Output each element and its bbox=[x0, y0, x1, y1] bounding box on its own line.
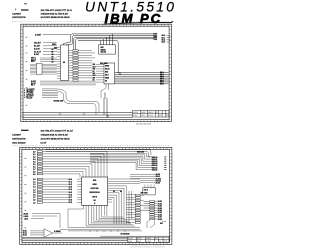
svg-text:00: 00 bbox=[93, 80, 95, 82]
svg-text:00: 00 bbox=[105, 81, 107, 83]
svg-text:000-00: 000-00 bbox=[101, 52, 107, 54]
svg-text:100 2704-4771 10012 0777 10-11: 100 2704-4771 10012 0777 10-11 bbox=[41, 10, 73, 12]
svg-text:100 2704-4771 10012 0777 10-11: 100 2704-4771 10012 0777 10-117 bbox=[41, 130, 74, 132]
svg-text:00: 00 bbox=[120, 191, 122, 193]
svg-text:8-007: 8-007 bbox=[34, 54, 40, 56]
svg-text:000-06: 000-06 bbox=[152, 169, 157, 171]
svg-text:00000: 00000 bbox=[141, 112, 146, 114]
svg-text:1/100007: 1/100007 bbox=[12, 134, 22, 136]
svg-text:91/07/13/1700: 91/07/13/1700 bbox=[12, 17, 26, 19]
svg-text:00-0: 00-0 bbox=[105, 75, 109, 77]
svg-text:00-03: 00-03 bbox=[158, 208, 162, 210]
svg-text:0000 000 00000 0 000000 00: 0000 000 00000 0 000000 00 bbox=[131, 245, 165, 249]
svg-text:00-06: 00-06 bbox=[158, 214, 162, 216]
svg-text:000: 000 bbox=[93, 73, 96, 75]
svg-text:0: 0 bbox=[94, 203, 95, 205]
svg-text:17811300 8/13 01-7300 8-017: 17811300 8/13 01-7300 8-017 bbox=[41, 134, 70, 136]
svg-text:00: 00 bbox=[159, 241, 161, 243]
svg-text:0-9: 0-9 bbox=[33, 174, 36, 176]
svg-text:1/100007: 1/100007 bbox=[12, 14, 22, 16]
svg-text:0000 000: 0000 000 bbox=[91, 188, 99, 190]
svg-text:91/07/13/1700: 91/07/13/1700 bbox=[12, 138, 26, 140]
svg-text:000: 000 bbox=[93, 64, 96, 66]
svg-text:00 000: 00 000 bbox=[146, 241, 151, 243]
svg-text:000-000: 000-000 bbox=[137, 151, 144, 153]
svg-text:00: 00 bbox=[93, 71, 95, 73]
svg-text:00: 00 bbox=[52, 52, 54, 54]
svg-text:000 0: 000 0 bbox=[92, 196, 97, 198]
svg-text:10.017070 30300-00710 00100: 10.017070 30300-00710 00100 bbox=[41, 17, 71, 19]
svg-text:1-9: 1-9 bbox=[33, 202, 36, 204]
svg-text:000: 000 bbox=[160, 223, 163, 225]
svg-text:00 000: 00 000 bbox=[148, 115, 153, 117]
svg-text:0000000-00: 0000000-00 bbox=[90, 192, 100, 194]
svg-text:0-000: 0-000 bbox=[133, 115, 137, 117]
svg-text:0-0007: 0-0007 bbox=[35, 34, 42, 36]
svg-text:00-00: 00-00 bbox=[158, 201, 162, 203]
svg-text:00-02: 00-02 bbox=[158, 206, 162, 208]
svg-text:00: 00 bbox=[156, 112, 158, 114]
svg-text:00-7: 00-7 bbox=[31, 85, 35, 87]
svg-text:0000: 0000 bbox=[144, 193, 148, 195]
svg-text:000 00: 000 00 bbox=[133, 112, 138, 114]
svg-text:0000: 0000 bbox=[105, 78, 109, 80]
svg-text:00-6: 00-6 bbox=[160, 84, 164, 86]
svg-text:00-01: 00-01 bbox=[158, 203, 162, 205]
svg-text:00-0: 00-0 bbox=[93, 66, 96, 68]
svg-text:000 00: 000 00 bbox=[128, 238, 133, 240]
svg-text:10.017070 30300-00710 00100: 10.017070 30300-00710 00100 bbox=[41, 138, 71, 140]
svg-text:8-0 07: 8-0 07 bbox=[41, 142, 48, 144]
svg-text:00: 00 bbox=[52, 49, 54, 51]
svg-text:00-0: 00-0 bbox=[25, 218, 29, 220]
svg-text:0-03: 0-03 bbox=[154, 39, 158, 41]
svg-text:00 000000: 00 000000 bbox=[121, 233, 130, 235]
svg-text:00: 00 bbox=[155, 238, 157, 240]
svg-text:000-0: 000-0 bbox=[141, 115, 145, 117]
svg-text:0-000: 0-000 bbox=[128, 241, 132, 243]
svg-text:11: 11 bbox=[166, 113, 169, 117]
svg-text:0000: 0000 bbox=[92, 184, 96, 186]
svg-text:00000: 00000 bbox=[137, 238, 141, 240]
svg-text:00: 00 bbox=[63, 62, 65, 64]
svg-text:0.8-00: 0.8-00 bbox=[34, 49, 41, 51]
svg-text:00-0: 00-0 bbox=[93, 75, 96, 77]
svg-text:81-007: 81-007 bbox=[34, 46, 41, 48]
svg-text:00-05: 00-05 bbox=[158, 212, 162, 214]
svg-text:00-04: 00-04 bbox=[158, 210, 162, 212]
svg-text:12: 12 bbox=[164, 239, 168, 243]
svg-text:000: 000 bbox=[105, 72, 108, 74]
svg-text:00-08: 00-08 bbox=[158, 219, 162, 221]
svg-text:00-07: 00-07 bbox=[158, 217, 162, 219]
svg-text:0 00000: 0 00000 bbox=[54, 231, 61, 233]
svg-text:000000: 000000 bbox=[146, 238, 151, 240]
svg-text:00-007: 00-007 bbox=[27, 97, 33, 99]
svg-text:000-000 00 0000: 000-000 00 0000 bbox=[136, 123, 152, 125]
svg-text:00-9: 00-9 bbox=[69, 202, 72, 204]
svg-text:0000: 0000 bbox=[105, 66, 109, 68]
svg-text:0/8-007: 0/8-007 bbox=[34, 42, 42, 44]
svg-text:000: 000 bbox=[93, 180, 96, 182]
svg-text:000: 000 bbox=[93, 77, 96, 79]
svg-text:00: 00 bbox=[52, 59, 54, 61]
svg-text:00-00: 00-00 bbox=[105, 69, 110, 71]
svg-text:000: 000 bbox=[54, 48, 57, 50]
svg-text:0-02: 0-02 bbox=[23, 235, 27, 237]
svg-text:00: 00 bbox=[52, 57, 54, 59]
svg-text:0077: 0077 bbox=[31, 61, 35, 63]
svg-text:000: 000 bbox=[93, 69, 96, 71]
svg-text:000 0: 000 0 bbox=[144, 190, 148, 192]
svg-text:000000: 000000 bbox=[148, 112, 153, 114]
svg-text:00: 00 bbox=[113, 191, 115, 193]
svg-text:00: 00 bbox=[94, 200, 96, 202]
svg-text:00: 00 bbox=[159, 115, 161, 117]
svg-text:0001 1001100: 0001 1001100 bbox=[12, 142, 26, 144]
svg-text:00-3: 00-3 bbox=[162, 42, 166, 44]
svg-text:00: 00 bbox=[52, 54, 54, 56]
svg-text:17811300 8/13 01-7300 8-017: 17811300 8/13 01-7300 8-017 bbox=[41, 14, 70, 16]
svg-text:00: 00 bbox=[52, 62, 54, 64]
svg-text:000-0: 000-0 bbox=[137, 241, 141, 243]
svg-text:000 0000: 000 0000 bbox=[100, 63, 108, 65]
svg-text:00000-000: 00000-000 bbox=[54, 100, 64, 102]
svg-text:00-00: 00-00 bbox=[156, 183, 160, 185]
